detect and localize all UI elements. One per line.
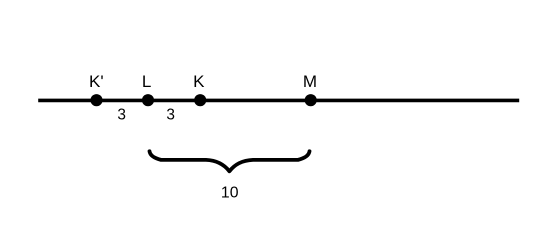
svg-text:K': K': [89, 72, 104, 91]
svg-text:K: K: [193, 72, 205, 91]
svg-text:10: 10: [221, 185, 239, 202]
svg-text:3: 3: [117, 107, 126, 124]
svg-text:L: L: [142, 72, 151, 91]
svg-text:3: 3: [166, 107, 175, 124]
svg-text:M: M: [303, 72, 317, 91]
